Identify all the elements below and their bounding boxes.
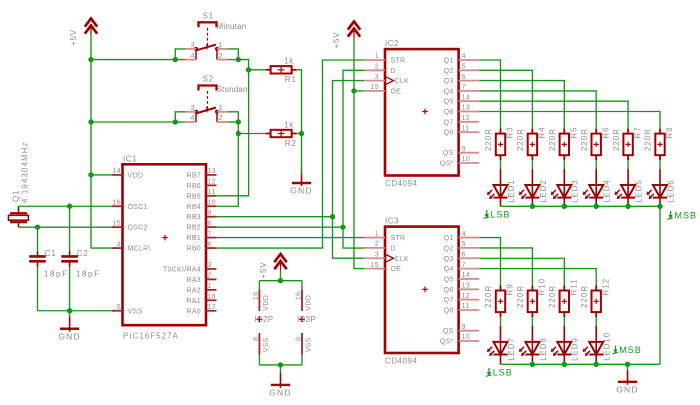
switch S2 pin 2 stub [217, 121, 227, 123]
node S1 rail left junction [173, 57, 178, 62]
wire IC3 Q2 to R10 [479, 248, 532, 286]
wire RB1 to IC3 STR [217, 237, 365, 239]
svg-text:7: 7 [462, 262, 466, 269]
svg-text:LED3: LED3 [571, 179, 580, 203]
IC2 pin 13 Q6 stub [459, 111, 480, 113]
wire IC2 Q5 to R7 [479, 101, 628, 128]
svg-text:3: 3 [191, 42, 195, 49]
capacitor C1 [37, 227, 39, 251]
svg-text:IC3: IC3 [385, 216, 399, 225]
wire R9 to LED7 [500, 317, 502, 326]
wire +5V to IC1 VDD [91, 174, 112, 176]
svg-text:CD4094: CD4094 [385, 179, 417, 188]
wire S2 junction to R2 [238, 133, 265, 135]
wire R2 to GND vertical [297, 133, 302, 135]
IC IC3 CD4094 box [385, 227, 459, 353]
wire S2 right hook [227, 112, 238, 122]
node top rail corner [657, 204, 662, 209]
IC1 pin 14 VDD stub [112, 174, 123, 176]
svg-text:VDD: VDD [128, 172, 144, 179]
svg-text:LED5: LED5 [635, 179, 644, 203]
IC2 pin 6 Q3 stub [459, 80, 480, 82]
svg-text:RB7: RB7 [186, 172, 201, 179]
node R1/R2 GND junction [299, 131, 304, 136]
svg-text:17: 17 [208, 304, 217, 311]
svg-text:8: 8 [208, 220, 212, 227]
wire S2 net to RB4 [217, 134, 239, 207]
svg-text:RB0: RB0 [186, 246, 201, 253]
wire R7 to LED5 [627, 160, 629, 169]
svg-text:LSB: LSB [491, 209, 511, 219]
wire CLK bus vertical [333, 81, 365, 259]
LED LED7 emission arrows [489, 347, 492, 350]
svg-text:OSC2: OSC2 [128, 225, 148, 232]
IC1 pin 12 RB6 stub [206, 184, 217, 186]
node top rail junction [530, 204, 535, 209]
svg-text:1: 1 [219, 105, 223, 112]
resistor R10 [531, 286, 533, 291]
node bottom rail junction [562, 362, 567, 367]
IC2 pin 9 QS stub [459, 152, 480, 154]
svg-text:6: 6 [462, 251, 466, 258]
svg-text:2: 2 [219, 53, 223, 60]
node +5V/IC2 OE junction [351, 88, 356, 93]
svg-text:5: 5 [462, 64, 466, 71]
switch S1 pin 2 stub [217, 59, 227, 61]
IC2 pin 11 Q8 stub [459, 131, 480, 133]
node +5V/S2 rail junction [88, 119, 93, 124]
svg-text:R8: R8 [665, 126, 674, 138]
svg-text:GND: GND [58, 331, 81, 341]
wire S2 left hook [175, 112, 185, 122]
svg-text:R10: R10 [538, 278, 547, 296]
svg-text:18pF: 18pF [44, 269, 69, 279]
wire OSC1 net [18, 206, 20, 212]
svg-text:Minutan: Minutan [217, 22, 247, 31]
svg-text:RB3: RB3 [186, 214, 201, 221]
IC3 pin 4 Q1 stub [459, 237, 480, 239]
svg-text:1: 1 [208, 283, 212, 290]
node S2 output [236, 119, 241, 124]
svg-text:RB6: RB6 [186, 183, 201, 190]
svg-text:5: 5 [117, 304, 121, 311]
node VSS rail junction [278, 362, 283, 367]
svg-text:10: 10 [462, 156, 471, 163]
svg-text:14: 14 [112, 168, 121, 175]
resistor R3 [500, 129, 502, 134]
node bottom rail junction [530, 362, 535, 367]
svg-text:220R: 220R [548, 285, 557, 308]
wire RB2 to D bus [217, 226, 344, 228]
wire IC2 Q6 to R8 [479, 112, 660, 129]
wire RB0 to IC2 STR [217, 60, 365, 248]
svg-text:Q2: Q2 [444, 68, 454, 75]
wire IC2 Q3 to R5 [479, 81, 564, 129]
svg-text:2: 2 [375, 64, 379, 71]
supply +5V (above IC2) [348, 29, 360, 37]
svg-text:STR: STR [391, 58, 406, 65]
svg-text:MSB: MSB [675, 210, 698, 220]
wire VSS rail [259, 364, 302, 366]
IC2 pin 15 OE stub [364, 90, 385, 92]
svg-text:5: 5 [462, 241, 466, 248]
svg-text:1: 1 [375, 231, 379, 238]
node top rail junction [562, 204, 567, 209]
wire R5 to LED3 [563, 160, 565, 169]
svg-text:6: 6 [208, 241, 212, 248]
wire R10 to LED8 [531, 317, 533, 326]
svg-text:10: 10 [462, 334, 471, 341]
svg-text:12: 12 [208, 179, 217, 186]
resistor R6 [595, 129, 597, 134]
IC2 pin 10 QS* stub [459, 162, 480, 164]
IC2 pin 1 STR stub [364, 59, 385, 61]
supply +5V (power pins) [274, 261, 286, 269]
svg-text:VSS: VSS [128, 308, 143, 315]
switch S2 dashed actuator [207, 91, 209, 109]
svg-text:QS: QS [443, 328, 454, 335]
switch S1 pin 1 stub [217, 48, 227, 50]
svg-text:LED9: LED9 [571, 337, 580, 361]
IC3 pin 10 QS* stub [459, 340, 480, 342]
svg-text:LED4: LED4 [603, 179, 612, 203]
svg-text:13: 13 [462, 105, 471, 112]
svg-text:Q2: Q2 [444, 245, 454, 252]
resistor R12 [595, 286, 597, 291]
IC1 pin 7 RB1 stub [206, 237, 217, 239]
svg-text:220R: 220R [516, 128, 525, 151]
switch S2 pin 1 stub [217, 111, 227, 113]
node S1 output [236, 57, 241, 62]
wire S1 junction to R1 [249, 69, 266, 71]
wire S2 output down to R2 row [237, 122, 239, 134]
svg-text:220R: 220R [612, 128, 621, 151]
svg-text:RB2: RB2 [186, 225, 201, 232]
ground bottom-right [627, 364, 629, 370]
IC U1 IC1 PIC16F527A box [123, 164, 207, 325]
svg-text:LED6: LED6 [666, 179, 675, 203]
svg-text:Q4: Q4 [444, 88, 454, 95]
IC3 clock symbol [385, 254, 394, 262]
LED LED9 [563, 326, 565, 342]
svg-text:16: 16 [112, 199, 121, 206]
LED LED8 [531, 326, 533, 342]
IC2 pin 3 CLK stub [364, 80, 385, 82]
svg-text:LED7: LED7 [507, 337, 516, 361]
wire IC3 Q4 to R12 [479, 269, 596, 286]
LED LED6 [659, 169, 661, 185]
svg-text:Q4: Q4 [444, 266, 454, 273]
svg-text:Q1: Q1 [11, 190, 20, 202]
wire R8 to LED6 [659, 160, 661, 169]
IC2 pin 5 Q2 stub [459, 69, 480, 71]
resistor R8 [659, 129, 661, 134]
capacitor C2 [69, 206, 71, 251]
svg-text:220R: 220R [484, 128, 493, 151]
IC1 pin 18 RA1 stub [206, 299, 217, 301]
svg-text:Q5: Q5 [444, 276, 454, 283]
svg-text:RA0: RA0 [186, 308, 201, 315]
wire IC3 Q1 to R9 [479, 238, 500, 286]
IC1 pin 9 RB3 stub [206, 216, 217, 218]
svg-text:Q3: Q3 [444, 78, 454, 85]
IC1 pin 11 RB5 stub [206, 195, 217, 197]
svg-text:1: 1 [219, 42, 223, 49]
svg-text:1k: 1k [284, 120, 294, 129]
node C2/VSS junction [67, 308, 72, 313]
svg-text:RA1: RA1 [186, 298, 201, 305]
svg-text:1k: 1k [284, 57, 294, 66]
node VDD rail junction [278, 278, 283, 283]
svg-text:R1: R1 [285, 75, 297, 84]
svg-text:MCLR\: MCLR\ [128, 246, 151, 253]
svg-text:D: D [391, 245, 396, 252]
wire S1 right hook [227, 49, 238, 60]
svg-text:Q1: Q1 [444, 235, 454, 242]
IC3 pin 2 D stub [364, 247, 385, 249]
svg-text:16: 16 [253, 292, 260, 301]
wire +5V to S1 rail [91, 59, 175, 61]
svg-text:220R: 220R [516, 285, 525, 308]
svg-text:4: 4 [191, 53, 195, 60]
svg-text:R4: R4 [538, 126, 547, 138]
LED LED3 emission arrows [553, 190, 556, 193]
IC3 pin 12 Q7 stub [459, 299, 480, 301]
LED LED8 emission arrows [521, 347, 524, 350]
svg-text:9: 9 [462, 324, 466, 331]
IC3 pin 5 Q2 stub [459, 247, 480, 249]
svg-text:OE: OE [391, 88, 402, 95]
wire S1 net to RB5 [217, 70, 249, 196]
svg-text:7: 7 [462, 84, 466, 91]
svg-text:VSS: VSS [305, 337, 312, 352]
node bottom rail GND junction [625, 362, 630, 367]
IC IC2 CD4094 box [385, 49, 459, 175]
svg-text:Q7: Q7 [444, 297, 454, 304]
svg-text:220R: 220R [644, 128, 653, 151]
LED LED1 [500, 169, 502, 185]
IC1 pin 16 OSC1 stub [112, 205, 123, 207]
wire IC2 Q4 to R6 [479, 91, 596, 129]
wire R12 to LED10 [595, 317, 597, 326]
svg-text:Q5: Q5 [444, 99, 454, 106]
IC1 pin 1 RA2 stub [206, 289, 217, 291]
IC3 pin 9 QS stub [459, 330, 480, 332]
svg-text:2: 2 [208, 273, 212, 280]
IC1 pin 13 RB7 stub [206, 174, 217, 176]
svg-text:QS: QS [443, 150, 454, 157]
svg-text:LED10: LED10 [603, 332, 612, 361]
switch S2 pin 3 stub [186, 111, 197, 113]
LED LED4 [595, 169, 597, 185]
IC1 pin 6 RB0 stub [206, 247, 217, 249]
node S2 rail left junction [173, 119, 178, 124]
svg-text:15: 15 [112, 220, 121, 227]
svg-text:220R: 220R [484, 285, 493, 308]
svg-text:R6: R6 [601, 126, 610, 138]
switch S2 pin 4 stub [186, 121, 197, 123]
node RB3/CLK junction [330, 214, 335, 219]
node +5V/VDD junction [88, 172, 93, 177]
IC2 pin 4 Q1 stub [459, 59, 480, 61]
node +5V/S1 rail junction [88, 57, 93, 62]
wire +5V vertical to MCLR [91, 30, 112, 248]
svg-text:3: 3 [208, 262, 212, 269]
resistor R4 [531, 129, 533, 134]
svg-text:D: D [391, 68, 396, 75]
IC1 pin 17 RA0 stub [206, 310, 217, 312]
node RB2/D junction [340, 224, 345, 229]
svg-text:2: 2 [219, 115, 223, 122]
wire top LED cathode rail [501, 205, 661, 207]
wire OSC2 net [18, 223, 20, 227]
wire +5V to S2 rail [91, 121, 175, 123]
svg-text:220R: 220R [548, 128, 557, 151]
svg-text:4: 4 [462, 231, 466, 238]
resistor R7 [627, 129, 629, 134]
svg-text:Stundan: Stundan [217, 85, 248, 94]
IC3 pin 3 CLK stub [364, 257, 385, 259]
svg-text:220R: 220R [580, 285, 589, 308]
svg-text:MSB: MSB [619, 345, 642, 355]
IC3 pin 11 Q8 stub [459, 309, 480, 311]
svg-text:LSB: LSB [493, 367, 513, 377]
svg-text:Q6: Q6 [444, 109, 454, 116]
node OSC1/C2 junction [67, 204, 72, 209]
LED LED6 emission arrows [649, 190, 652, 193]
svg-text:R12: R12 [601, 278, 610, 296]
svg-text:Q6: Q6 [444, 287, 454, 294]
svg-text:12: 12 [462, 293, 471, 300]
svg-text:C1: C1 [45, 249, 57, 258]
svg-text:6: 6 [462, 74, 466, 81]
wire +5V to OE bus [354, 38, 364, 269]
svg-text:GND: GND [290, 186, 313, 196]
svg-text:R2: R2 [285, 139, 297, 148]
wire S1 left hook [175, 49, 185, 60]
wire R1 to GND vertical [297, 70, 302, 134]
svg-text:OE: OE [391, 266, 402, 273]
svg-text:LED8: LED8 [539, 337, 548, 361]
wire D bus vertical [343, 70, 364, 248]
resistor R2 [266, 133, 271, 135]
wire IC2 Q1 to R3 [479, 60, 500, 129]
IC2 pin 7 Q4 stub [459, 90, 480, 92]
svg-text:18: 18 [208, 294, 217, 301]
svg-text:+5V: +5V [332, 32, 341, 49]
svg-text:R11: R11 [570, 278, 579, 295]
wire R6 to LED4 [595, 160, 597, 169]
svg-text:8: 8 [295, 337, 302, 341]
IC3 pin 1 STR stub [364, 237, 385, 239]
LED LED3 [563, 169, 565, 185]
svg-text:+5V: +5V [259, 262, 268, 279]
node bottom rail junction [594, 362, 599, 367]
wire down to GND [301, 134, 303, 174]
svg-text:GND: GND [269, 387, 292, 397]
svg-text:3: 3 [375, 74, 379, 81]
ground below R2 [301, 168, 303, 174]
svg-text:Q7: Q7 [444, 119, 454, 126]
LED LED10 emission arrows [585, 347, 588, 350]
IC1 pin 10 RB4 stub [206, 205, 217, 207]
IC3 pin 6 Q3 stub [459, 257, 480, 259]
IC1 pin 15 OSC2 stub [112, 226, 123, 228]
svg-text:CLK: CLK [395, 256, 410, 263]
svg-text:3: 3 [375, 251, 379, 258]
svg-text:4: 4 [117, 241, 121, 248]
svg-text:13: 13 [208, 168, 217, 175]
IC2 pin 2 D stub [364, 69, 385, 71]
switch S1 contacts and arm [195, 49, 197, 60]
svg-text:RA3: RA3 [186, 277, 201, 284]
svg-text:18pF: 18pF [76, 269, 101, 279]
svg-text:12: 12 [462, 115, 471, 122]
svg-text:QS*: QS* [440, 339, 454, 346]
svg-text:4.194304MHz: 4.194304MHz [21, 141, 30, 203]
svg-text:Q3: Q3 [444, 256, 454, 263]
wire VSS ground rail [38, 310, 113, 312]
node label LSB (top group) [486, 210, 488, 216]
svg-text:VSS: VSS [263, 337, 270, 352]
svg-text:11: 11 [462, 303, 470, 310]
IC2 pin 12 Q7 stub [459, 121, 480, 123]
wire R3 to LED1 [500, 160, 502, 169]
svg-text:220R: 220R [580, 128, 589, 151]
svg-text:LED2: LED2 [539, 179, 548, 203]
switch S1 pin 3 stub [186, 48, 197, 50]
LED LED5 emission arrows [617, 190, 620, 193]
wire to IC2 OE [354, 90, 364, 92]
svg-text:1: 1 [375, 53, 379, 60]
node S2/R2 junction [236, 131, 241, 136]
svg-text:C2: C2 [77, 249, 89, 258]
switch S1 button [199, 22, 217, 27]
wire +5V to VDD rail [280, 271, 282, 281]
svg-text:CD4094: CD4094 [385, 357, 417, 366]
node S1/R1 junction [246, 67, 251, 72]
svg-text:R3: R3 [506, 126, 515, 138]
svg-text:14: 14 [462, 272, 471, 279]
node label MSB (top group) [670, 211, 672, 217]
IC power pins IC3P [301, 281, 303, 290]
svg-text:QS*: QS* [440, 161, 454, 168]
LED LED4 emission arrows [585, 190, 588, 193]
svg-text:3: 3 [191, 105, 195, 112]
svg-text:16: 16 [295, 292, 302, 301]
resistor R9 [500, 286, 502, 291]
node OSC2/C1 junction [35, 224, 40, 229]
svg-text:14: 14 [462, 94, 471, 101]
switch S2 button [199, 86, 217, 91]
svg-text:15: 15 [370, 84, 379, 91]
svg-text:10: 10 [208, 199, 217, 206]
svg-text:S1: S1 [203, 11, 214, 20]
LED LED7 [500, 326, 502, 342]
svg-text:OSC1: OSC1 [128, 204, 148, 211]
IC2 clock symbol [385, 76, 394, 84]
svg-text:+5V: +5V [69, 29, 78, 46]
svg-text:PIC16F527A: PIC16F527A [123, 332, 179, 341]
svg-text:GND: GND [616, 384, 639, 394]
svg-text:RA2: RA2 [186, 287, 201, 294]
svg-text:R9: R9 [506, 283, 515, 295]
wire IC3 Q3 to R11 [479, 258, 564, 285]
svg-text:RB1: RB1 [186, 235, 201, 242]
node label MSB (bottom group) [615, 346, 617, 352]
wire S1 output to R1 [238, 60, 248, 70]
LED LED1 emission arrows [489, 190, 492, 193]
